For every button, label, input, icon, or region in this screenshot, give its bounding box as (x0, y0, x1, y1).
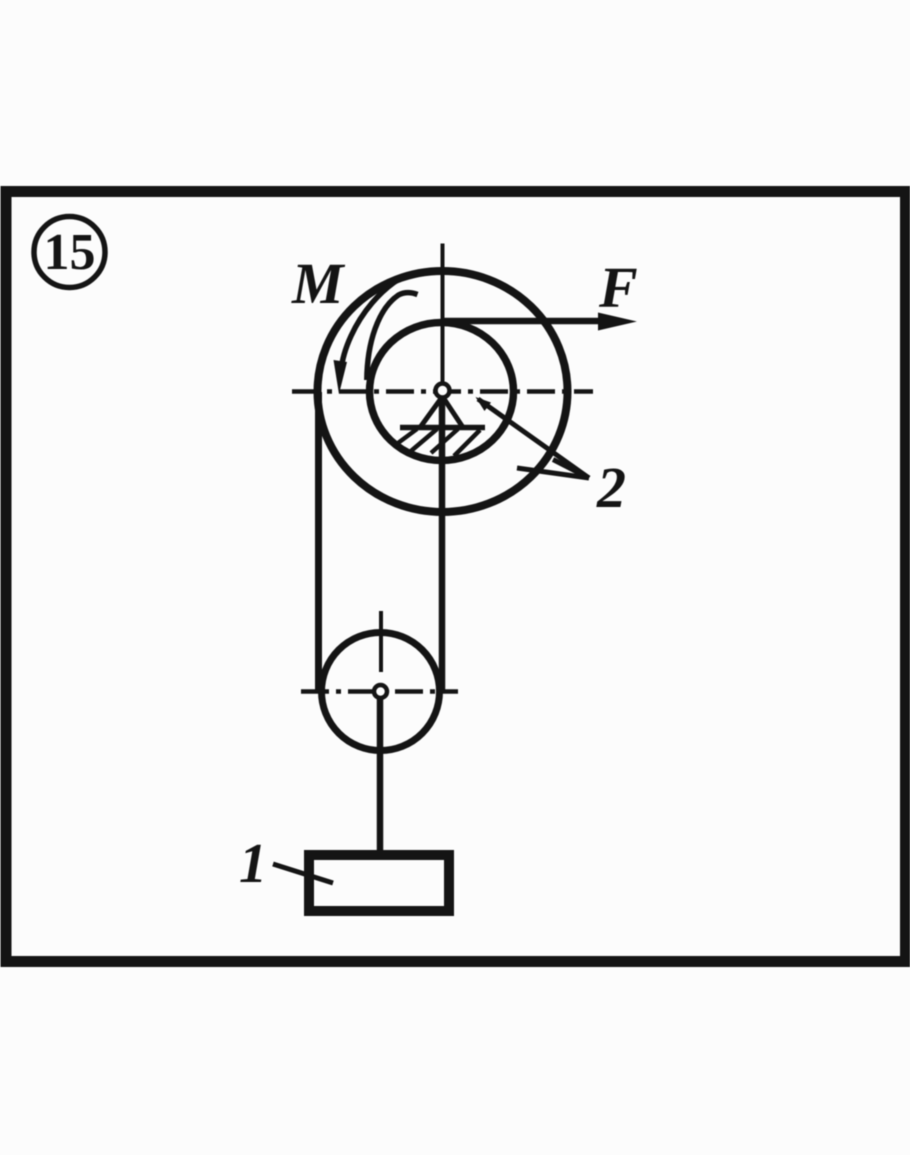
belt left side (315, 392, 322, 692)
leader line to block 1 (273, 864, 333, 883)
leader line to inner circle of 2 (478, 399, 589, 478)
belt right side (439, 398, 446, 692)
pivot triangle (420, 397, 463, 428)
horizontal centerline of pulley 2 (292, 389, 593, 394)
hatch stroke 3 (431, 429, 458, 453)
block 1 rectangle (309, 855, 449, 911)
leader line to outer circle of 2 (517, 468, 589, 478)
hatch stroke 1 (398, 429, 417, 443)
leader small arrowhead near hub (476, 397, 492, 411)
hatch stroke 2 (411, 429, 437, 451)
pulley 2 inner circle (370, 323, 514, 461)
moment M arc outer sweep (341, 279, 399, 371)
F arrowhead (598, 313, 637, 331)
pulley 1 circle (small) (322, 633, 440, 751)
pulley 2 outer circle (318, 271, 568, 512)
svg-text:2: 2 (596, 455, 626, 520)
svg-text:F: F (598, 255, 638, 320)
vertical centerline of pulley 2 (441, 244, 445, 385)
small pulley vertical centerline (379, 611, 383, 672)
rope to block (377, 697, 384, 857)
svg-text:M: M (291, 251, 346, 316)
M arc arrowhead (334, 360, 348, 394)
problem number badge circle (34, 217, 105, 288)
border frame (6, 192, 906, 962)
small pulley horizontal centerline (301, 689, 458, 694)
svg-text:15: 15 (44, 224, 96, 281)
leader arrowhead barb (553, 460, 589, 479)
force F line (441, 318, 606, 325)
hatch stroke 4 (454, 430, 480, 456)
moment M arc inner sweep (367, 293, 418, 380)
pin of small pulley (374, 685, 387, 698)
support ground line (400, 425, 485, 431)
pin of pulley 2 (436, 384, 450, 398)
svg-text:1: 1 (239, 833, 267, 895)
